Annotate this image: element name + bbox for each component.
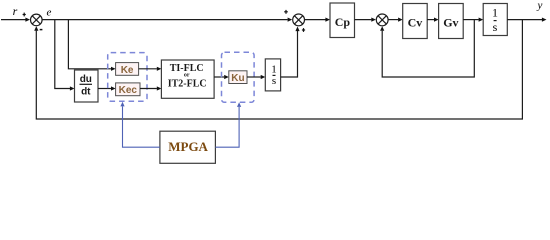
block integrator 1/s plant [483,4,507,36]
block Cp [330,3,355,38]
block FLC controller [161,60,214,98]
wire MPGA to Ku frame [215,102,241,147]
svg-text:1: 1 [271,63,277,75]
wire output y [507,18,546,22]
wire e drop to du/dt [55,20,75,91]
svg-text:Ku: Ku [231,73,244,84]
sign minus junction1 [40,29,43,31]
svg-text:Kec: Kec [119,85,138,96]
wire du/dt to Kec [98,86,116,90]
svg-text:s: s [272,75,276,87]
svg-text:e: e [47,7,52,19]
block du/dt [75,70,99,102]
wire Cp to junction3 [355,18,376,22]
summing junction 2 [293,14,305,26]
wire junction2 to Cp [305,18,330,22]
svg-text:IT2-FLC: IT2-FLC [168,79,207,90]
wire Ke to FLC [139,67,162,71]
wire outer feedback [34,20,522,119]
summing junction 1 [31,14,43,26]
svg-text:1: 1 [492,5,498,19]
svg-text:MPGA: MPGA [168,139,208,154]
svg-text:Ke: Ke [121,65,134,76]
wire FLC to Ku [214,75,229,79]
block Kec [116,83,140,96]
svg-text:Cp: Cp [335,15,351,29]
svg-text:Cv: Cv [408,15,423,29]
svg-text:dt: dt [81,86,91,97]
sign plus junction1 [23,13,26,17]
wire MPGA to Ke Kec frame [120,102,159,147]
block MPGA [160,131,216,163]
node r input wire [1,18,30,22]
wire Cv to Gv [427,18,438,22]
block Ke [116,63,139,76]
wire Kec to FLC [140,86,161,90]
svg-text:Gv: Gv [443,15,458,29]
block Cv [403,4,428,39]
wire e drop to Ke [68,20,115,71]
summing junction 3 [376,14,388,26]
dashed tuning frame Ku [222,52,255,102]
sign plus junction2 bottom [302,28,305,32]
wire Gv to integrator [463,18,483,22]
sign plus junction2 top [284,10,288,14]
svg-text:r: r [13,4,18,18]
svg-text:du: du [80,74,92,85]
svg-text:s: s [493,20,498,34]
wire inner feedback [380,20,474,77]
wire e line to junction2 [43,18,293,22]
block integrator 1/s FLC [265,59,280,91]
wire integrator to junction2 [281,27,300,78]
wire junction3 to Cv [389,18,403,22]
block Ku [229,71,247,84]
wire Ku to integrator [247,75,265,79]
svg-text:y: y [537,0,543,12]
dashed tuning frame Ke Kec [108,53,147,102]
block Gv [439,4,464,39]
